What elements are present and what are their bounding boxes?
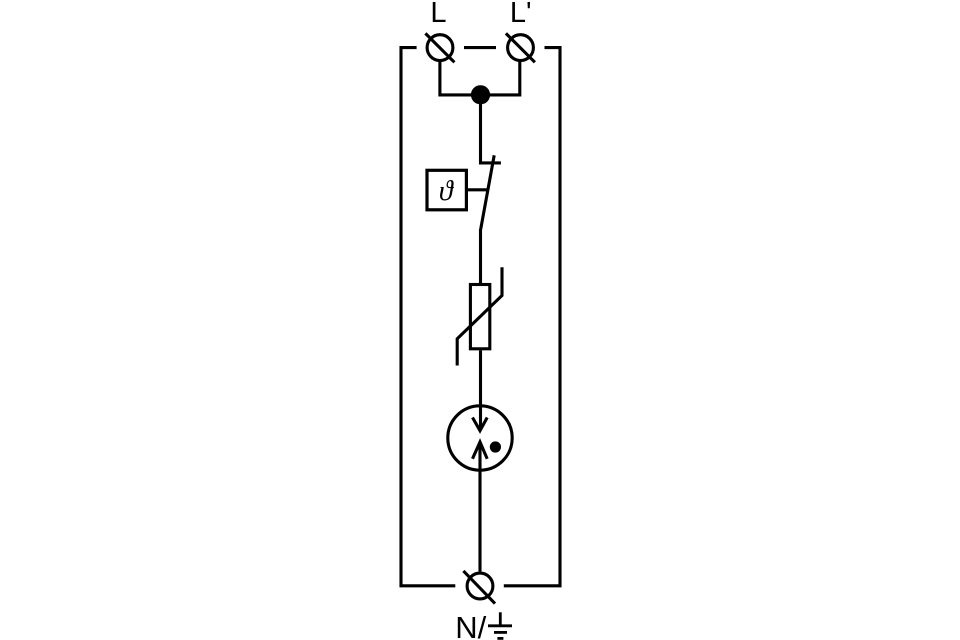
svg-text:ϑ: ϑ [439, 176, 455, 207]
svg-text:N/: N/ [455, 610, 486, 640]
svg-text:L': L' [510, 0, 532, 29]
svg-text:L: L [430, 0, 446, 29]
